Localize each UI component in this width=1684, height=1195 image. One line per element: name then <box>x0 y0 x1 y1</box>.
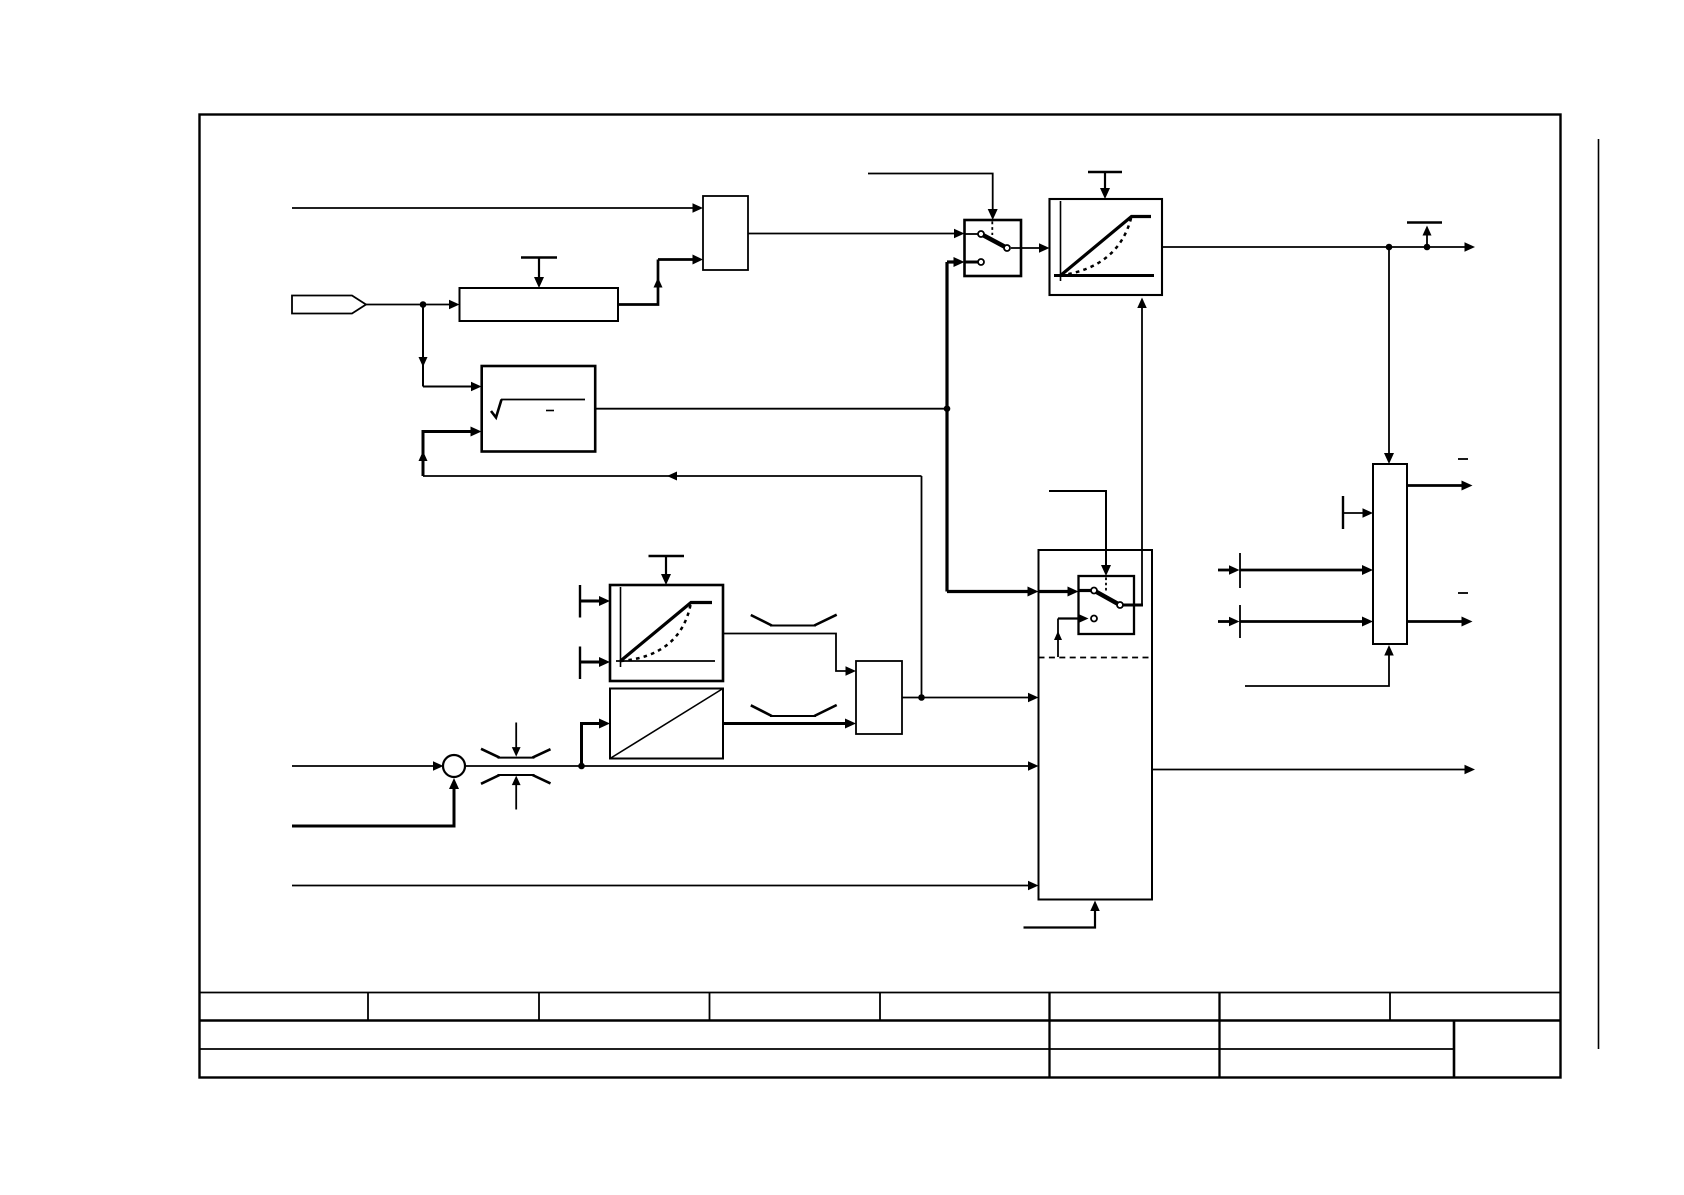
wire feedback riser <box>921 476 923 698</box>
switch S1 terminal a <box>978 231 984 237</box>
title block top line <box>200 992 1561 994</box>
wire sqrt input 2 <box>419 427 482 477</box>
bracket min upper <box>751 615 837 626</box>
wire sqrt out <box>595 408 947 410</box>
wire B to A <box>618 255 703 305</box>
title block cell divider <box>367 993 369 1021</box>
switch S1 lever <box>983 235 1005 246</box>
wire min out to selector <box>902 693 1039 703</box>
switch S2 stem <box>1105 578 1107 592</box>
switch S1 box <box>965 220 1022 276</box>
node flag junction <box>420 301 427 308</box>
wire limiter out upper <box>1407 481 1473 491</box>
block B <box>460 288 619 321</box>
switch S2 terminal a <box>1091 588 1097 594</box>
input flag <box>292 296 366 314</box>
node sqrt out junction <box>944 405 951 412</box>
title block cell divider <box>1389 993 1391 1021</box>
sqrt glyph <box>491 400 585 418</box>
block linear <box>610 689 723 759</box>
RFG1 axis <box>1060 201 1062 281</box>
param T RFG2 <box>649 556 685 585</box>
wire A to switch <box>748 229 965 239</box>
wire RFG1 out <box>1162 242 1475 252</box>
switch S1 common <box>1004 245 1010 251</box>
block RFG1 <box>1050 199 1163 295</box>
wire input 1 <box>292 203 703 213</box>
RFG1 baseline <box>1054 274 1154 277</box>
switch S2 common <box>1117 602 1123 608</box>
wire input setpoint <box>292 761 444 771</box>
wire trunk vertical <box>945 262 948 592</box>
switch S2 lever <box>1096 592 1118 604</box>
title block cell divider <box>879 993 881 1021</box>
wire input 2 thick <box>292 778 459 826</box>
wire S2 to RFG1 setter <box>1137 298 1147 606</box>
clamp upper <box>481 749 551 758</box>
block sqrt <box>482 366 596 452</box>
label dash lower <box>1458 592 1468 594</box>
page edge mark <box>1598 139 1600 1049</box>
wire feedback lower <box>423 472 922 481</box>
title block divider <box>1218 993 1220 1078</box>
param T limiter <box>1343 496 1373 529</box>
wire selector out <box>1152 765 1475 775</box>
switch S1 input stub b <box>965 261 979 264</box>
wire to limit block <box>1384 247 1394 464</box>
wire linear out <box>723 719 856 729</box>
bracket min lower <box>751 705 837 716</box>
wire limiter out lower <box>1407 617 1473 627</box>
title block cell divider <box>538 993 540 1021</box>
RFG2 s-curve <box>621 603 692 662</box>
label dash upper <box>1458 458 1468 460</box>
wire setpoint to selector <box>465 761 1039 771</box>
wire input 3 to selector <box>292 881 1039 891</box>
switch S1 stem <box>991 222 993 236</box>
block A <box>703 196 748 270</box>
title block row line <box>200 1048 1455 1050</box>
wire S1 to RFG1 <box>1011 243 1050 253</box>
linear diagonal <box>610 689 723 759</box>
RFG2 axis <box>620 587 622 667</box>
node min junction <box>918 694 925 701</box>
wire trunk to selector <box>947 587 1079 597</box>
tick limiter input a <box>1239 553 1241 588</box>
wire limiter bottom <box>1245 645 1394 686</box>
summing circle <box>443 755 465 777</box>
tick RFG2 input 1 <box>579 585 581 618</box>
param wire S1 <box>868 174 998 221</box>
wire flag to B <box>366 300 460 310</box>
param wire S2 <box>1049 491 1111 576</box>
drawing frame <box>200 115 1561 1078</box>
selector dashed divider <box>1039 657 1153 659</box>
switch S2 box <box>1079 576 1135 634</box>
tick RFG2 input 2 <box>579 647 581 680</box>
title block signature cell <box>1453 1021 1456 1078</box>
wire junction down <box>419 305 482 392</box>
switch S1 terminal b <box>978 259 984 265</box>
block RFG2 <box>610 585 723 681</box>
tick limiter input b <box>1239 605 1241 638</box>
wire S2 common stub <box>1122 604 1143 607</box>
switch S2 terminal b <box>1091 616 1097 622</box>
tap to bar <box>1407 223 1442 248</box>
clamp lower <box>481 775 551 784</box>
title block cell divider <box>709 993 711 1021</box>
title block divider <box>1048 993 1050 1078</box>
node out junction 2 <box>1424 244 1431 251</box>
block selector <box>1039 550 1153 900</box>
wire RFG2 input 1 <box>580 596 610 606</box>
selector bottom connector <box>1024 901 1100 928</box>
switch S2 input stub a <box>1079 589 1092 592</box>
switch S1 input stub a <box>965 233 979 235</box>
wire S2 lower input <box>1054 614 1089 657</box>
clamp upper arrow <box>512 723 521 757</box>
param T block B <box>521 258 557 289</box>
node setpoint junction <box>578 763 585 770</box>
wire to linear block <box>582 719 611 767</box>
block min select <box>856 661 902 734</box>
title block heavy line <box>200 1019 1561 1022</box>
block limiter <box>1373 464 1407 644</box>
RFG2 baseline <box>616 660 715 662</box>
clamp lower arrow <box>512 776 521 810</box>
wire trunk to switch 1 <box>947 257 965 267</box>
wire limiter input b <box>1218 617 1373 627</box>
wire RFG2 out <box>723 634 856 676</box>
node out junction 1 <box>1386 244 1393 251</box>
param T RFG1 <box>1088 172 1122 199</box>
wire limiter input a <box>1218 565 1373 575</box>
RFG1 s-curve <box>1061 217 1132 276</box>
RFG1 ramp <box>1061 217 1152 276</box>
wire RFG2 input 2 <box>580 657 610 667</box>
RFG2 ramp <box>621 603 713 662</box>
